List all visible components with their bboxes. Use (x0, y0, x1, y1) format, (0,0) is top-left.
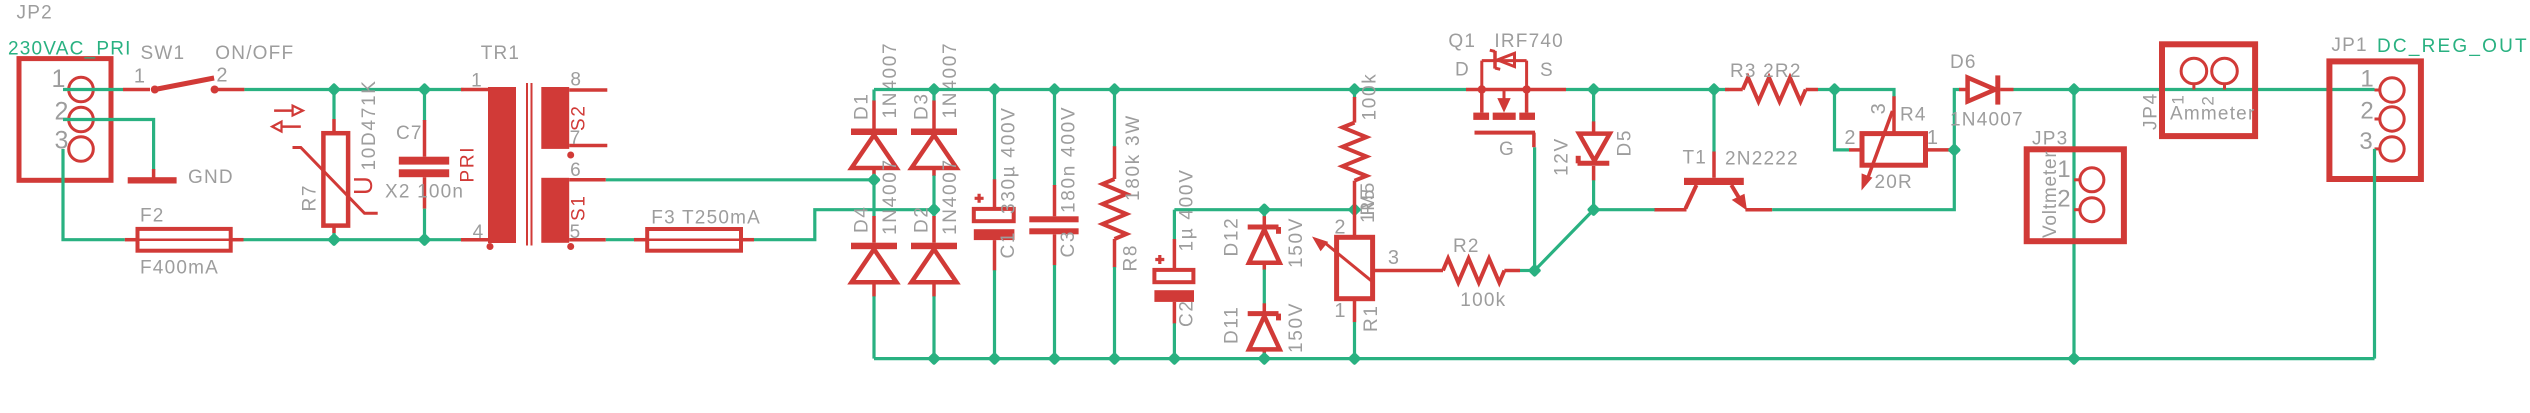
svg-text:R1: R1 (1361, 304, 1382, 332)
svg-text:F3 T250mA: F3 T250mA (651, 208, 761, 229)
capacitor C1 (974, 90, 1015, 359)
svg-text:2: 2 (2057, 186, 2072, 213)
svg-text:3: 3 (1388, 247, 1400, 269)
wire DC+ rail (874, 88, 1466, 91)
svg-text:R4: R4 (1900, 105, 1927, 126)
svg-text:230VAC_PRI: 230VAC_PRI (8, 39, 132, 60)
wire JP2 pin2 to GND (63, 120, 154, 171)
junction R4 pin1 node (1947, 143, 1961, 157)
resistor R3 (1725, 78, 1835, 102)
svg-text:330µ 400V: 330µ 400V (999, 106, 1020, 214)
ground GND (128, 169, 177, 184)
svg-text:DC_REG_OUT: DC_REG_OUT (2377, 36, 2529, 57)
transistor Q1 (1466, 50, 1566, 147)
potentiometer R1 (1312, 210, 1373, 359)
svg-text:R3 2R2: R3 2R2 (1730, 61, 1802, 82)
wire JP2 pin3 to F2 (63, 149, 125, 240)
capacitor C2 (1154, 210, 1194, 359)
svg-text:D6: D6 (1950, 52, 1977, 73)
junction T1 base node (1707, 83, 1721, 97)
svg-text:1: 1 (2169, 93, 2188, 104)
wire JP1 pin3 to GND rail (2373, 149, 2376, 359)
svg-text:R2: R2 (1453, 236, 1480, 257)
svg-text:2: 2 (1844, 127, 1856, 149)
connector JP2 (19, 59, 111, 181)
plus mark C2 (1155, 255, 1164, 264)
junction R8 bottom (1108, 352, 1122, 366)
svg-text:C7: C7 (396, 123, 423, 144)
wire TR1 pin5 to F3 (606, 238, 634, 241)
svg-text:GND: GND (188, 167, 234, 188)
zener diode D12 (1248, 210, 1280, 304)
svg-text:PRI: PRI (457, 146, 478, 183)
svg-text:2: 2 (2199, 94, 2218, 105)
zener diode D11 (1248, 303, 1280, 358)
junction C7 top (418, 83, 432, 97)
svg-text:U: U (348, 175, 378, 195)
junction D5 top (1587, 83, 1601, 97)
svg-text:S: S (1540, 60, 1554, 81)
resistor R2 (1373, 259, 1535, 283)
junction C2 bottom (1167, 352, 1181, 366)
junction C3 top (1048, 83, 1062, 97)
svg-text:6: 6 (570, 160, 582, 181)
junction R1 pin1 (1348, 352, 1362, 366)
wire F2 to TR1 pin4 (244, 238, 462, 241)
svg-text:1: 1 (1334, 300, 1346, 322)
svg-text:100k: 100k (1460, 290, 1506, 311)
svg-text:D1: D1 (851, 92, 872, 120)
zener diode D5 (1578, 90, 1610, 210)
svg-text:D3: D3 (911, 92, 932, 120)
svg-text:S1: S1 (568, 194, 589, 221)
diode D4 (851, 180, 897, 359)
junction R5 top (1348, 83, 1362, 97)
diode D6 (1959, 75, 2014, 104)
resistor R5 (1343, 90, 1367, 210)
fuse F2 (125, 229, 244, 251)
svg-text:F400mA: F400mA (140, 258, 219, 279)
svg-text:100k: 100k (1360, 72, 1381, 120)
svg-text:150V: 150V (1286, 302, 1307, 353)
svg-text:Ammeter: Ammeter (2170, 104, 2255, 125)
svg-text:1: 1 (2057, 156, 2072, 183)
junction bridge AC1 (867, 173, 881, 187)
svg-text:1N4007: 1N4007 (940, 42, 961, 119)
resistor R8 (1103, 90, 1127, 359)
junction C1 bottom (988, 352, 1002, 366)
wire TR1 pin6 to bridge (606, 178, 874, 181)
junction R5 bottom (1348, 203, 1362, 217)
junction JP3 riser (2067, 352, 2081, 366)
fuse F3 (634, 229, 754, 251)
junction C3 bottom (1048, 352, 1062, 366)
junction C1 top (988, 83, 1002, 97)
svg-text:1M5: 1M5 (1358, 181, 1379, 223)
wire GND rail (874, 357, 2375, 360)
junction D2 anode (927, 352, 941, 366)
svg-text:JP2: JP2 (17, 3, 53, 24)
wire R4 node to D6 (1954, 90, 1959, 150)
wire T1 emitter to R4 node (1772, 150, 1954, 209)
connector JP3 (2027, 149, 2124, 241)
svg-text:D11: D11 (1222, 305, 1243, 344)
svg-text:F2: F2 (140, 206, 165, 227)
junction D11 anode (1257, 352, 1271, 366)
wire D6 to JP1 pin1 (2014, 88, 2375, 91)
svg-text:2: 2 (2360, 97, 2375, 124)
wire SW1 to TR1 pin1 (244, 88, 463, 91)
svg-text:ON/OFF: ON/OFF (215, 43, 294, 64)
junction bridge AC2 (927, 203, 941, 217)
svg-text:1: 1 (1927, 127, 1939, 149)
svg-text:2: 2 (216, 65, 228, 87)
junction R3 right node (1828, 83, 1842, 97)
svg-text:1: 1 (134, 66, 146, 88)
svg-text:180n 400V: 180n 400V (1059, 106, 1080, 213)
connector JP4 (2162, 44, 2255, 136)
svg-text:S2: S2 (568, 104, 589, 131)
svg-text:2N2222: 2N2222 (1725, 149, 1799, 170)
svg-text:1: 1 (2360, 66, 2375, 93)
svg-text:180k 3W: 180k 3W (1123, 114, 1144, 201)
wire voltmeter riser (2072, 90, 2075, 359)
svg-text:C1: C1 (998, 231, 1019, 259)
svg-text:D4: D4 (851, 205, 872, 233)
junction R8 top (1108, 83, 1122, 97)
svg-text:JP1: JP1 (2331, 35, 2367, 56)
junction D5 anode node (1587, 203, 1601, 217)
svg-text:2: 2 (54, 98, 69, 126)
svg-text:1N4007: 1N4007 (880, 158, 901, 235)
svg-text:JP3: JP3 (2032, 129, 2068, 150)
wire C2 to R1 pin2 net (1174, 208, 1354, 211)
svg-text:1N4007: 1N4007 (1950, 110, 2024, 131)
capacitor C7 (399, 90, 449, 240)
junction D3 cathode (927, 83, 941, 97)
connector JP1 (2329, 61, 2421, 179)
diode D1 (851, 90, 897, 180)
junction voltmeter node (2067, 83, 2081, 97)
svg-text:4: 4 (473, 222, 485, 243)
svg-text:C2: C2 (1177, 299, 1198, 327)
svg-text:Q1: Q1 (1448, 31, 1476, 52)
wire F3 to bridge (754, 210, 934, 240)
wire D5 to T1 collector (1594, 208, 1655, 211)
wire JP2 pin1 to SW1 (63, 88, 123, 91)
svg-text:R8: R8 (1121, 244, 1142, 272)
transformer TR1 (461, 83, 607, 250)
svg-text:TR1: TR1 (481, 43, 521, 64)
svg-text:C3: C3 (1058, 230, 1079, 258)
svg-text:2: 2 (1334, 217, 1346, 239)
svg-text:20R: 20R (1875, 172, 1913, 193)
junction D12 cathode (1257, 203, 1271, 217)
svg-text:IRF740: IRF740 (1494, 31, 1564, 52)
svg-text:8: 8 (570, 69, 582, 90)
varistor R7 (272, 90, 378, 240)
plus mark C1 (975, 194, 984, 203)
svg-text:R7: R7 (300, 184, 321, 212)
wire gate node diagonal to D5 (1535, 210, 1594, 271)
diode D2 (911, 210, 957, 359)
transistor T1 (1654, 90, 1772, 211)
junction R7 top (327, 83, 341, 97)
svg-text:150V: 150V (1286, 217, 1307, 268)
svg-text:1N4007: 1N4007 (940, 158, 961, 235)
svg-text:G: G (1499, 139, 1515, 160)
svg-text:12V: 12V (1552, 137, 1573, 176)
wire Q1 source to R3 (1566, 88, 1725, 91)
junction gate node (1528, 264, 1542, 278)
capacitor C3 (1029, 90, 1078, 359)
switch SW1 (123, 78, 244, 94)
svg-text:5: 5 (570, 222, 582, 243)
wire R2 to Q1 gate (1533, 147, 1536, 270)
wire R3 node to R4 pin3 (1835, 90, 1895, 98)
svg-text:D12: D12 (1222, 217, 1243, 257)
svg-text:3: 3 (2359, 128, 2374, 155)
svg-text:SW1: SW1 (141, 43, 186, 64)
svg-text:10D471K: 10D471K (359, 79, 380, 170)
svg-text:1: 1 (471, 70, 483, 91)
wire R3 node to R4 pin2 (1835, 90, 1850, 150)
junction R7 bottom (327, 233, 341, 247)
svg-text:3: 3 (1868, 102, 1890, 115)
junction C7 bottom (418, 233, 432, 247)
diode D3 (911, 90, 957, 210)
svg-text:T1: T1 (1683, 148, 1708, 169)
svg-text:D5: D5 (1615, 129, 1636, 157)
trimmer R4 (1849, 96, 1954, 190)
svg-text:1N4007: 1N4007 (880, 42, 901, 119)
svg-text:JP4: JP4 (2141, 92, 2162, 130)
svg-text:X2 100n: X2 100n (385, 182, 464, 203)
svg-text:D: D (1455, 60, 1470, 81)
